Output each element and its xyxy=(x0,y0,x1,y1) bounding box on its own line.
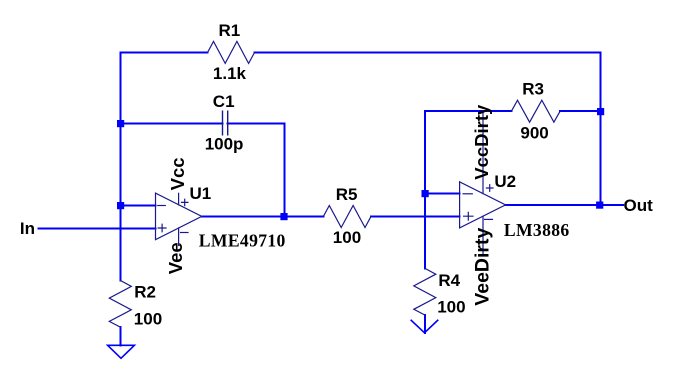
svg-text:U1: U1 xyxy=(190,184,212,203)
svg-text:VccDirty: VccDirty xyxy=(471,104,492,180)
V- pin mark U1 xyxy=(181,232,189,234)
svg-text:C1: C1 xyxy=(213,92,235,111)
wire to U1 inverting input xyxy=(121,205,156,207)
V+ pin mark U1 xyxy=(182,199,188,205)
ground under R4 xyxy=(411,320,438,333)
junction at C1 left xyxy=(117,120,124,127)
resistor R3 xyxy=(511,80,560,143)
wire C1 left lead xyxy=(121,123,223,125)
resistor R2 xyxy=(109,281,162,329)
wire C1 right vertical xyxy=(284,124,286,217)
svg-text:100: 100 xyxy=(437,298,465,317)
svg-text:Vcc: Vcc xyxy=(167,157,188,190)
wire R5 to U2 non-inverting input xyxy=(371,216,460,218)
svg-text:100p: 100p xyxy=(205,134,244,153)
non-inverting input mark U1 xyxy=(158,224,166,232)
wire U1 output to R5 xyxy=(202,216,324,218)
wire to U2 inverting input xyxy=(425,193,460,195)
svg-text:R4: R4 xyxy=(438,271,460,290)
svg-text:R1: R1 xyxy=(219,21,241,40)
svg-text:VeeDirty: VeeDirty xyxy=(472,227,494,305)
junction at U2 inverting input xyxy=(422,190,429,197)
wire U2 output to Out xyxy=(506,204,624,206)
svg-text:Vee: Vee xyxy=(165,242,186,274)
resistor R4 xyxy=(414,268,466,316)
inverting input mark U1 xyxy=(158,205,166,207)
capacitor C1 xyxy=(205,92,244,153)
svg-text:100: 100 xyxy=(134,310,162,329)
svg-text:LM3886: LM3886 xyxy=(504,220,570,240)
wire R4 to ground xyxy=(424,315,426,333)
pin V+ stub U2 xyxy=(482,111,484,194)
svg-text:R2: R2 xyxy=(134,283,156,302)
pin V- stub U2 xyxy=(482,216,484,254)
wire right vertical from top to Out node xyxy=(600,53,602,206)
junction at R3 right xyxy=(597,108,604,115)
wire In to U1 non-inverting input xyxy=(39,228,156,230)
V+ pin mark U2 xyxy=(486,185,493,192)
wire left vertical xyxy=(120,53,122,281)
svg-text:900: 900 xyxy=(520,123,548,142)
wire top feedback left segment xyxy=(121,52,208,54)
wire middle vertical to R4 xyxy=(424,111,426,268)
V- pin mark U2 xyxy=(485,218,493,220)
wire C1 right lead xyxy=(228,123,285,125)
svg-text:LME49710: LME49710 xyxy=(199,231,286,251)
op-amp U1 xyxy=(156,184,286,251)
junction at U1 inverting input xyxy=(117,202,124,209)
wire VccDirty node to R3 xyxy=(425,110,511,112)
svg-text:Out: Out xyxy=(624,196,654,215)
ground under R2 xyxy=(108,345,135,358)
resistor R1 xyxy=(208,21,255,83)
inverting input mark U2 xyxy=(463,193,472,195)
non-inverting input mark U2 xyxy=(464,212,473,220)
svg-text:100: 100 xyxy=(333,228,361,247)
op-amp U2 xyxy=(460,111,570,254)
junction at U1 output xyxy=(280,213,287,220)
junction at Out xyxy=(596,202,603,209)
wire R3 to right vertical xyxy=(560,110,600,112)
svg-text:R3: R3 xyxy=(522,80,544,99)
pin V+ stub U1 xyxy=(178,193,180,205)
svg-text:R5: R5 xyxy=(336,185,358,204)
wire R2 to ground xyxy=(120,327,122,345)
pin V- stub U1 xyxy=(178,228,180,246)
svg-text:1.1k: 1.1k xyxy=(213,64,247,83)
wire top feedback right segment xyxy=(255,52,601,54)
svg-text:In: In xyxy=(20,219,35,238)
resistor R5 xyxy=(323,185,371,247)
svg-text:U2: U2 xyxy=(494,172,516,191)
